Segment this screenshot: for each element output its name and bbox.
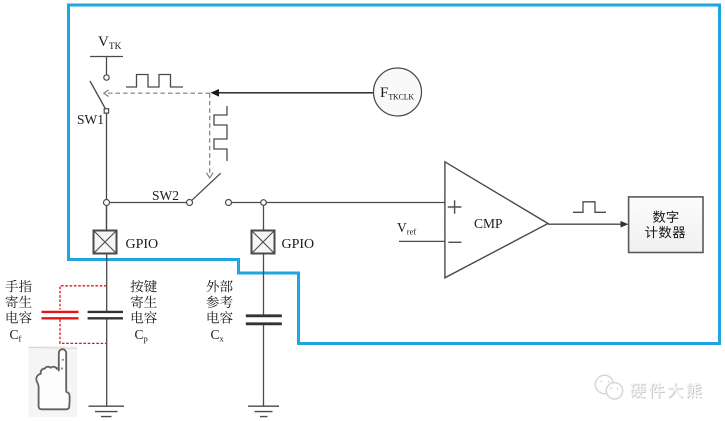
wire Vref to comparator - input: [399, 240, 445, 242]
plus input marking: [448, 200, 462, 214]
svg-text:Cx: Cx: [211, 327, 225, 344]
capacitor Cx: [246, 316, 282, 324]
node circle at Cx branch: [261, 200, 267, 206]
MCU boundary (cyan chip outline): [69, 5, 720, 344]
svg-text:Cf: Cf: [10, 327, 22, 344]
finger / hand icon: [29, 346, 78, 417]
svg-text:VTK: VTK: [98, 34, 122, 52]
label 计数器: [645, 226, 657, 238]
VTK supply bar: [90, 57, 123, 75]
pulse symbol: [573, 202, 606, 213]
ground 2: [248, 406, 279, 416]
label 数字: [653, 211, 666, 223]
switch SW1 blade: [90, 81, 106, 109]
GPIO pin 2 (box with X): [252, 231, 275, 254]
open arrowhead pointing down: [206, 173, 213, 178]
wire node down to GPIO1: [106, 206, 108, 231]
wire Cp to ground: [106, 319, 108, 405]
svg-text:CMP: CMP: [474, 216, 503, 231]
wire SW2 to comparator + input: [232, 202, 445, 204]
label: button parasitic capacitance (按键寄生电容 Cp): [131, 280, 157, 344]
oscillator FTKCLK circle: [374, 68, 422, 116]
dashed clock route (horizontal): [108, 92, 210, 94]
watermark bear icon: [595, 375, 622, 399]
dashed clock route (vertical): [209, 93, 211, 173]
node circle left of SW2: [104, 200, 110, 206]
wire GPIO2 down to Cx: [263, 254, 265, 316]
switch SW2 blade: [192, 173, 221, 200]
wire GPIO1 down to Cp: [106, 254, 108, 312]
wire Cx to ground: [263, 325, 265, 406]
clock waveform (vertical): [214, 106, 227, 161]
ground 1: [89, 406, 125, 416]
switch SW2 pivot circle: [187, 200, 193, 206]
capacitor Cp: [88, 312, 123, 318]
VTK terminal circle: [104, 75, 109, 80]
GPIO pin 1 (box with X): [94, 231, 117, 254]
red dashed branch (finger coupling): [60, 286, 107, 344]
open arrowhead pointing left: [104, 90, 109, 97]
svg-text:Cp: Cp: [135, 327, 148, 344]
switch SW2 right contact circle: [226, 200, 232, 206]
svg-text:SW1: SW1: [77, 112, 104, 127]
capacitor Cf (red): [42, 312, 79, 318]
label: finger parasitic capacitance (手指寄生电容 Cf): [5, 280, 31, 344]
filled arrowhead pointing left: [211, 89, 220, 97]
op-amp comparator CMP: [445, 162, 548, 278]
switch SW1 terminal square: [104, 109, 108, 113]
wire node down to GPIO2: [263, 205, 265, 230]
label: external reference capacitance (外部参考电容 Cx): [206, 280, 232, 344]
svg-text:GPIO: GPIO: [282, 237, 315, 252]
watermark text 硬件大熊: [631, 384, 646, 399]
wire comparator output: [548, 223, 623, 225]
minus input marking: [448, 241, 461, 243]
filled arrowhead into counter: [621, 221, 629, 228]
block: digital counter (数字计数器): [629, 197, 703, 253]
svg-text:GPIO: GPIO: [126, 237, 159, 252]
clock waveform (horizontal): [126, 75, 183, 88]
wire from FTKCLK: [217, 92, 374, 94]
svg-text:SW2: SW2: [152, 188, 179, 203]
svg-text:Vref: Vref: [397, 220, 416, 237]
wire node to SW2: [110, 202, 187, 204]
wire SW1 down to GPIO node: [106, 114, 108, 231]
